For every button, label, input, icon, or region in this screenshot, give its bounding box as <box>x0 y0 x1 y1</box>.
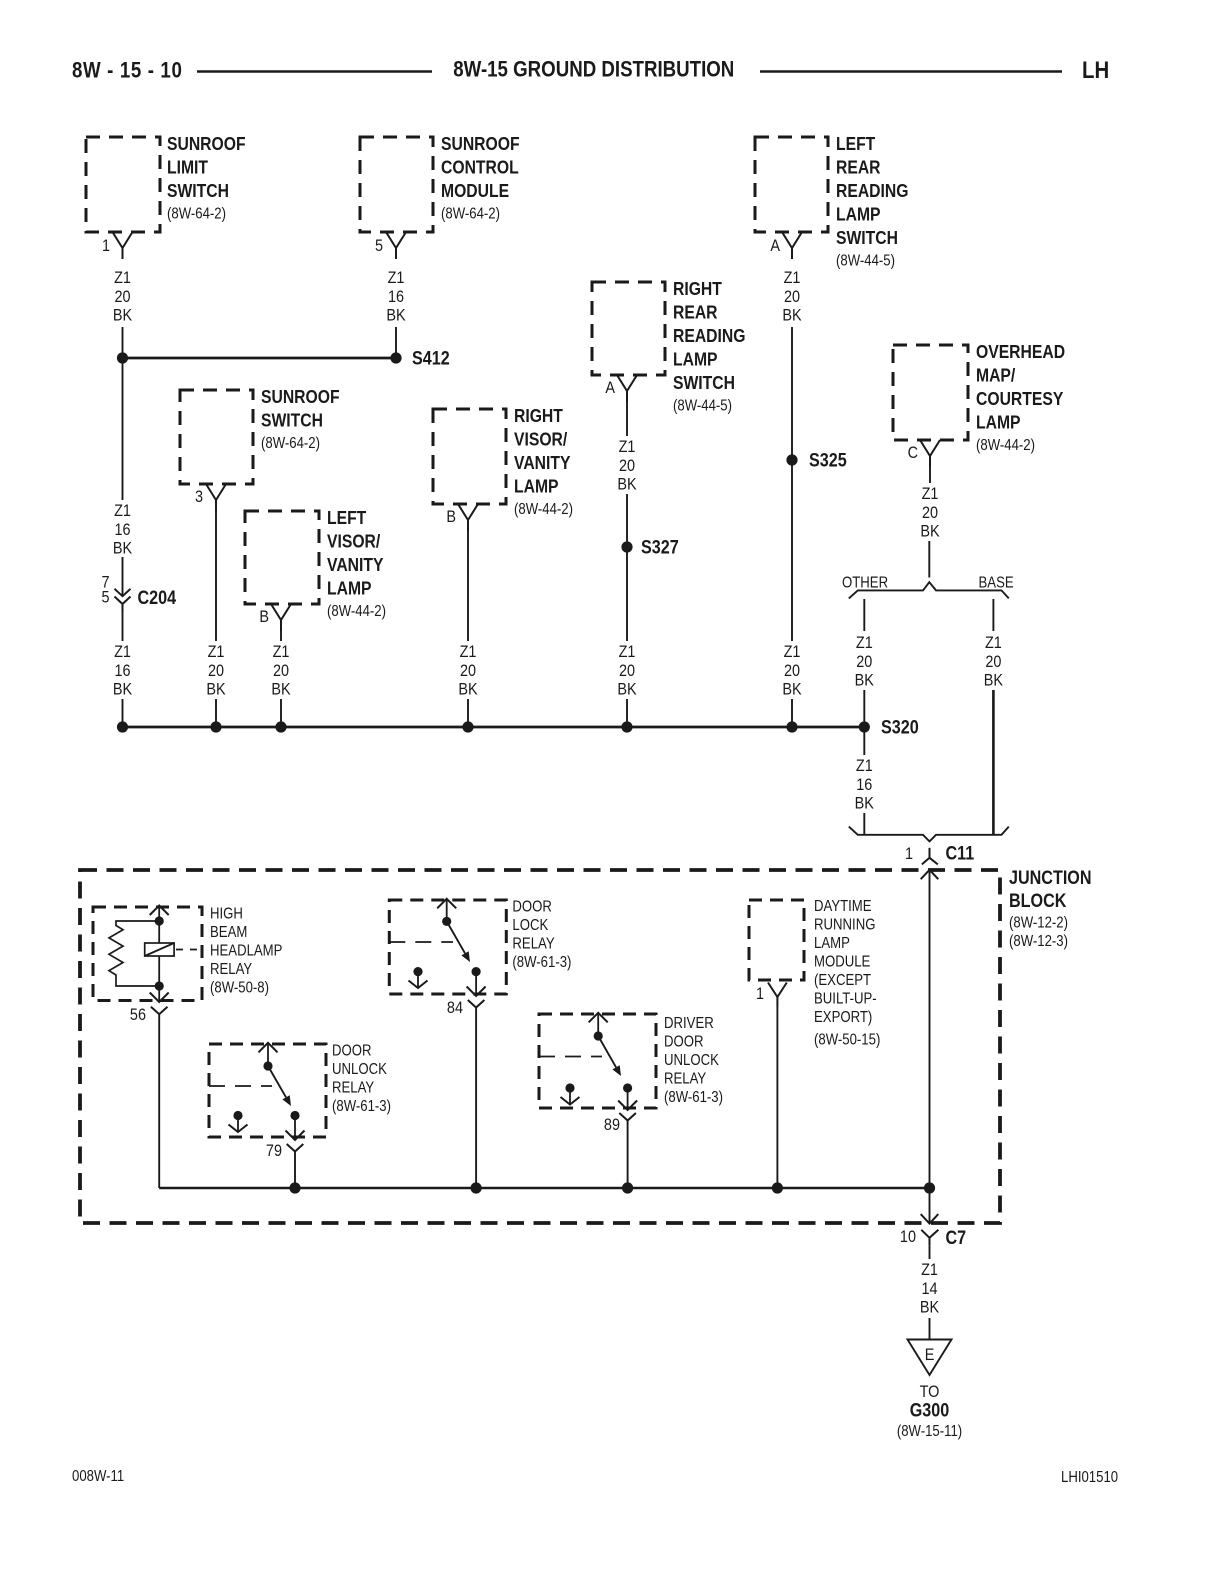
relay HIGH BEAM HEADLAMP RELAY box <box>93 907 202 1001</box>
svg-text:LAMP: LAMP <box>327 578 372 600</box>
label DOOR LOCK RELAY (8W-61-3) <box>512 898 571 971</box>
relay coil element <box>145 921 174 986</box>
svg-text:C11: C11 <box>946 842 975 864</box>
svg-text:EXPORT): EXPORT) <box>814 1009 872 1026</box>
relay NC contact arrow <box>229 1116 248 1133</box>
svg-text:(8W-64-2): (8W-64-2) <box>167 206 226 223</box>
svg-text:DAYTIME: DAYTIME <box>814 898 872 915</box>
junction dot at S412 left <box>117 352 128 363</box>
footer sheet number 008W-11 <box>72 1468 124 1485</box>
relay switch arm <box>598 1036 621 1076</box>
label RIGHT REAR READING LAMP SWITCH (8W-44-5) <box>673 278 745 415</box>
label DRIVER DOOR UNLOCK RELAY (8W-61-3) <box>664 1015 723 1106</box>
wire pin 56 to junction block bus <box>158 1015 160 1188</box>
svg-text:VISOR/: VISOR/ <box>327 531 380 553</box>
svg-text:BEAM: BEAM <box>210 924 247 941</box>
relay DOOR LOCK RELAY box <box>389 900 506 994</box>
label BASE variant <box>979 575 1014 592</box>
svg-text:BK: BK <box>206 680 226 698</box>
svg-text:20: 20 <box>114 288 130 306</box>
relay DOOR UNLOCK RELAY box <box>209 1044 326 1137</box>
svg-text:VISOR/: VISOR/ <box>514 429 567 451</box>
wire internal bus to C7 <box>929 1188 931 1224</box>
wire C204 down <box>122 612 124 641</box>
splice S325 junction dot <box>786 454 797 465</box>
svg-text:Z1: Z1 <box>114 269 131 287</box>
svg-text:Z1: Z1 <box>114 502 131 520</box>
svg-text:SWITCH: SWITCH <box>836 227 898 249</box>
svg-text:BK: BK <box>386 306 406 324</box>
footer drawing id LHI01510 <box>1061 1469 1118 1486</box>
svg-text:Z1: Z1 <box>784 269 801 287</box>
svg-text:Z1: Z1 <box>856 634 873 652</box>
svg-text:S327: S327 <box>641 536 679 558</box>
svg-text:Z1: Z1 <box>619 643 636 661</box>
svg-text:OVERHEAD: OVERHEAD <box>976 341 1065 363</box>
svg-text:S320: S320 <box>881 716 919 738</box>
svg-text:10: 10 <box>900 1228 916 1246</box>
wire right rear reading switch down <box>626 402 628 436</box>
svg-text:20: 20 <box>273 662 289 680</box>
pin 1 of C11 <box>905 845 913 863</box>
wire Z1 20 BK label (right rear reading switch) <box>617 438 637 494</box>
junction dot on internal bus x=777.4 <box>772 1182 783 1193</box>
relay NC contact dot <box>413 967 422 976</box>
pin 1 of daytime running lamp module <box>756 983 787 1008</box>
svg-text:REAR: REAR <box>836 157 881 179</box>
wire overhead lamp to variant brace <box>928 541 930 578</box>
wire Z1 16 BK label (C204 to ground bus) <box>113 643 133 699</box>
svg-text:Z1: Z1 <box>114 643 131 661</box>
svg-text:A: A <box>605 379 615 397</box>
relay internal dashed divider <box>539 1056 602 1058</box>
svg-text:LAMP: LAMP <box>976 412 1021 434</box>
connector C204 symbol <box>115 589 131 612</box>
label (8W-15-11) <box>897 1423 962 1440</box>
svg-text:56: 56 <box>130 1006 146 1024</box>
junction dot on ground bus x=281 <box>275 721 286 732</box>
svg-text:(8W-15-11): (8W-15-11) <box>897 1423 962 1440</box>
svg-text:SUNROOF: SUNROOF <box>441 133 520 155</box>
svg-text:8W-15 GROUND DISTRIBUTION: 8W-15 GROUND DISTRIBUTION <box>453 58 734 82</box>
component SUNROOF SWITCH box <box>180 390 253 484</box>
svg-text:(8W-61-3): (8W-61-3) <box>512 954 571 971</box>
svg-text:(8W-44-2): (8W-44-2) <box>327 603 386 620</box>
relay common dot <box>442 917 451 926</box>
wire Z1 20 BK label (S325 to ground bus) <box>782 643 802 699</box>
svg-text:BASE: BASE <box>979 575 1014 592</box>
label C7 <box>946 1227 967 1249</box>
wire to ground symbol <box>929 1318 931 1340</box>
svg-text:(8W-12-3): (8W-12-3) <box>1009 933 1068 950</box>
relay coil dashed link to case <box>176 949 200 951</box>
component RIGHT VISOR/VANITY LAMP box <box>433 409 506 504</box>
svg-text:BK: BK <box>920 522 940 540</box>
svg-text:(8W-44-2): (8W-44-2) <box>976 437 1035 454</box>
pin 7 of C204 <box>101 573 109 591</box>
svg-text:BK: BK <box>271 680 291 698</box>
wire Z1 20 BK label (right visor lamp) <box>458 643 478 699</box>
wire sunroof control module to S412 <box>395 327 397 353</box>
svg-text:LAMP: LAMP <box>673 349 718 371</box>
label DAYTIME RUNNING LAMP MODULE (EXCEPT BUILT-UP-EXPORT) (8W-50-15) <box>814 898 880 1049</box>
svg-text:LIMIT: LIMIT <box>167 157 208 179</box>
wire to ground bus (S327) <box>626 699 628 727</box>
junction dot on internal bus x=627.6 <box>622 1182 633 1193</box>
svg-text:BK: BK <box>984 671 1004 689</box>
svg-text:1: 1 <box>756 985 764 1003</box>
wire pin 79 to junction block bus <box>294 1152 296 1189</box>
svg-text:RELAY: RELAY <box>332 1079 375 1096</box>
label SUNROOF LIMIT SWITCH (8W-64-2) <box>167 133 246 223</box>
svg-text:VANITY: VANITY <box>327 554 384 576</box>
pin 84 of door lock relay <box>447 999 484 1017</box>
label S325 <box>809 449 847 471</box>
svg-text:20: 20 <box>784 662 800 680</box>
relay junction dot top <box>155 916 164 925</box>
wire OTHER branch upper <box>863 599 865 631</box>
relay internal dashed divider <box>389 941 453 943</box>
header rule left <box>197 70 432 73</box>
wire into connector C204 <box>122 557 124 596</box>
svg-text:MODULE: MODULE <box>441 180 509 202</box>
svg-text:20: 20 <box>922 504 938 522</box>
svg-text:(8W-64-2): (8W-64-2) <box>441 206 500 223</box>
variant split brace (top) <box>849 582 1009 598</box>
wire S327 down <box>626 552 628 641</box>
wire to ground bus (right visor lamp) <box>467 699 469 727</box>
svg-text:(EXCEPT: (EXCEPT <box>814 972 871 989</box>
svg-text:LEFT: LEFT <box>836 133 876 155</box>
relay feed arrow (top) <box>589 1013 608 1036</box>
wire Z1 20 BK label (overhead lamp) <box>920 485 940 541</box>
wire C11 down through junction block <box>929 870 931 1188</box>
svg-text:READING: READING <box>836 180 908 202</box>
svg-text:A: A <box>770 237 780 255</box>
svg-text:Z1: Z1 <box>921 1261 938 1279</box>
svg-text:RELAY: RELAY <box>210 961 253 978</box>
wire Z1 16 BK label (S320 to C11) <box>855 757 875 813</box>
junction dot on ground bus x=216 <box>210 721 221 732</box>
pin 5 of C204 <box>101 588 109 606</box>
wire to ground bus (left visor lamp) <box>280 699 282 727</box>
relay feed arrow (top) <box>150 906 169 922</box>
ground bus wire S320 <box>123 726 865 729</box>
relay NO contact dot <box>472 967 481 976</box>
label SUNROOF CONTROL MODULE (8W-64-2) <box>441 133 520 223</box>
svg-text:E: E <box>925 1346 935 1364</box>
svg-text:3: 3 <box>195 488 203 506</box>
svg-text:BK: BK <box>113 539 133 557</box>
svg-text:SWITCH: SWITCH <box>261 410 323 432</box>
svg-text:BK: BK <box>855 671 875 689</box>
svg-text:B: B <box>446 508 456 526</box>
svg-text:20: 20 <box>856 653 872 671</box>
svg-text:G300: G300 <box>910 1399 950 1421</box>
svg-text:(8W-50-15): (8W-50-15) <box>814 1031 880 1048</box>
svg-text:16: 16 <box>114 662 130 680</box>
splice S327 junction dot <box>621 541 632 552</box>
svg-text:HEADLAMP: HEADLAMP <box>210 942 282 959</box>
svg-text:(8W-64-2): (8W-64-2) <box>261 435 320 452</box>
component OVERHEAD MAP/COURTESY LAMP box <box>893 345 968 440</box>
relay feed arrow (top) <box>259 1043 278 1066</box>
label OVERHEAD MAP/COURTESY LAMP (8W-44-2) <box>976 341 1065 454</box>
svg-text:DOOR: DOOR <box>664 1033 703 1050</box>
component SUNROOF CONTROL MODULE box <box>360 137 433 232</box>
wire to ground bus (S325) <box>791 699 793 727</box>
svg-text:20: 20 <box>619 457 635 475</box>
label JUNCTION BLOCK (8W-12-2) (8W-12-3) <box>1009 867 1092 951</box>
wire Z1 20 BK label (sunroof switch) <box>206 643 226 699</box>
svg-text:Z1: Z1 <box>619 438 636 456</box>
wire sunroof switch down <box>215 511 217 641</box>
svg-text:OTHER: OTHER <box>842 575 888 592</box>
header page number 8W - 15 - 10 <box>72 59 182 83</box>
splice S412 bus wire <box>123 357 397 360</box>
svg-text:14: 14 <box>921 1280 937 1298</box>
svg-text:Z1: Z1 <box>784 643 801 661</box>
wire Z1 14 BK label (C7 to ground) <box>920 1261 940 1317</box>
label LEFT REAR READING LAMP SWITCH (8W-44-5) <box>836 133 908 270</box>
svg-text:RELAY: RELAY <box>512 935 555 952</box>
junction dot on ground bus x=122.5 <box>117 721 128 732</box>
svg-text:Z1: Z1 <box>460 643 477 661</box>
ground symbol triangle E <box>908 1340 952 1376</box>
svg-text:(8W-61-3): (8W-61-3) <box>664 1089 723 1106</box>
svg-text:VANITY: VANITY <box>514 452 571 474</box>
svg-text:JUNCTION: JUNCTION <box>1009 867 1092 889</box>
header LH <box>1082 56 1109 83</box>
svg-text:DOOR: DOOR <box>332 1042 371 1059</box>
connector C11 female half <box>922 848 938 865</box>
wire Z1 20 BK label (sunroof limit switch) <box>113 269 133 325</box>
svg-text:(8W-50-8): (8W-50-8) <box>210 979 269 996</box>
svg-text:Z1: Z1 <box>985 634 1002 652</box>
svg-text:(8W-44-5): (8W-44-5) <box>836 253 895 270</box>
svg-text:BUILT-UP-: BUILT-UP- <box>814 990 877 1007</box>
svg-text:1: 1 <box>905 845 913 863</box>
svg-text:Z1: Z1 <box>922 485 939 503</box>
svg-text:REAR: REAR <box>673 302 718 324</box>
wire Z1 20 BK label (OTHER branch) <box>855 634 875 690</box>
svg-text:84: 84 <box>447 999 463 1017</box>
pin 3 of sunroof switch <box>195 484 226 511</box>
svg-text:79: 79 <box>266 1142 282 1160</box>
svg-text:COURTESY: COURTESY <box>976 388 1064 410</box>
svg-text:LOCK: LOCK <box>512 917 548 934</box>
component DAYTIME RUNNING LAMP MODULE box <box>749 900 804 980</box>
relay common dot <box>594 1031 603 1040</box>
svg-text:SUNROOF: SUNROOF <box>261 386 340 408</box>
wire S325 down <box>791 465 793 641</box>
svg-text:Z1: Z1 <box>208 643 225 661</box>
svg-text:S325: S325 <box>809 449 847 471</box>
wire OTHER branch into S320 <box>863 690 865 722</box>
junction block internal ground bus <box>159 1187 929 1190</box>
wire S320 down <box>863 732 865 755</box>
relay output arrow (bottom) <box>467 972 486 996</box>
svg-text:SWITCH: SWITCH <box>673 372 735 394</box>
wire BASE branch down to connector brace <box>992 690 995 835</box>
svg-text:BK: BK <box>782 680 802 698</box>
svg-text:BK: BK <box>113 680 133 698</box>
component LEFT REAR READING LAMP SWITCH box <box>755 137 828 232</box>
pin 56 of high beam headlamp relay <box>130 1006 168 1024</box>
pin 1 of sunroof limit switch <box>102 232 133 259</box>
junction dot internal bus to C7 <box>924 1182 935 1193</box>
svg-text:1: 1 <box>102 237 110 255</box>
svg-text:MAP/: MAP/ <box>976 365 1015 387</box>
JUNCTION BLOCK dashed border <box>80 870 1000 1223</box>
wire Z1 16 BK label (sunroof control module) <box>386 269 406 325</box>
svg-text:Z1: Z1 <box>856 757 873 775</box>
wire into splice S327 <box>626 494 628 542</box>
relay DRIVER DOOR UNLOCK RELAY box <box>539 1014 656 1108</box>
svg-text:BK: BK <box>458 680 478 698</box>
svg-text:BK: BK <box>782 306 802 324</box>
header rule right <box>760 70 1062 73</box>
relay junction dot bottom <box>155 981 164 990</box>
svg-text:Z1: Z1 <box>388 269 405 287</box>
wire Z1 20 BK label (S327 to ground bus) <box>617 643 637 699</box>
svg-text:20: 20 <box>208 662 224 680</box>
svg-text:C204: C204 <box>138 587 177 609</box>
wire sunroof limit switch to S412 <box>122 327 124 353</box>
svg-text:8W - 15 - 10: 8W - 15 - 10 <box>72 59 182 83</box>
label SUNROOF SWITCH (8W-64-2) <box>261 386 340 452</box>
svg-text:LAMP: LAMP <box>836 204 881 226</box>
pin 79 of door unlock relay <box>266 1142 303 1160</box>
label TO <box>920 1383 940 1401</box>
connector C7 female half <box>921 1230 938 1246</box>
svg-text:(8W-44-2): (8W-44-2) <box>514 501 573 518</box>
svg-text:BK: BK <box>920 1298 940 1316</box>
splice S320 junction dot <box>859 721 870 732</box>
pin 5 of sunroof control module <box>375 232 406 259</box>
label C204 <box>138 587 177 609</box>
relay NC contact arrow <box>561 1088 580 1105</box>
svg-text:16: 16 <box>856 776 872 794</box>
pin B of left visor vanity lamp <box>259 604 291 631</box>
svg-text:008W-11: 008W-11 <box>72 1468 124 1485</box>
junction dot at S412 right <box>390 352 401 363</box>
junction dot on ground bus x=627 <box>621 721 632 732</box>
svg-text:16: 16 <box>114 521 130 539</box>
svg-text:RUNNING: RUNNING <box>814 916 875 933</box>
component RIGHT REAR READING LAMP SWITCH box <box>592 282 665 375</box>
svg-text:RIGHT: RIGHT <box>673 278 722 300</box>
junction dot on internal bus x=476.1 <box>471 1182 482 1193</box>
relay NO contact dot <box>290 1111 299 1120</box>
wire pin 89 to junction block bus <box>627 1121 629 1189</box>
connector C11 male arrow into junction block <box>921 870 939 879</box>
label S320 <box>881 716 919 738</box>
label HIGH BEAM HEADLAMP RELAY (8W-50-8) <box>210 905 282 996</box>
label S327 <box>641 536 679 558</box>
label LEFT VISOR/VANITY LAMP (8W-44-2) <box>327 507 386 620</box>
svg-text:CONTROL: CONTROL <box>441 157 519 179</box>
pin 89 of driver door unlock relay <box>604 1113 636 1134</box>
label S412 <box>412 347 450 369</box>
svg-text:LEFT: LEFT <box>327 507 367 529</box>
svg-text:LAMP: LAMP <box>514 476 559 498</box>
wire S320 branch to connector brace <box>863 813 865 835</box>
svg-text:20: 20 <box>619 662 635 680</box>
pin B of right visor vanity lamp <box>446 504 478 531</box>
junction dot on ground bus x=468 <box>462 721 473 732</box>
svg-text:C: C <box>908 444 918 462</box>
wire right visor lamp down <box>467 531 469 641</box>
connector C7 male arrow out of junction block <box>921 1214 939 1223</box>
wire overhead lamp down <box>929 467 931 483</box>
svg-text:LHI01510: LHI01510 <box>1061 1469 1118 1486</box>
svg-text:20: 20 <box>784 288 800 306</box>
pin A of right rear reading lamp switch <box>605 375 637 402</box>
svg-text:READING: READING <box>673 325 745 347</box>
svg-text:BK: BK <box>617 475 637 493</box>
component LEFT VISOR/VANITY LAMP box <box>245 511 319 604</box>
svg-text:SWITCH: SWITCH <box>167 180 229 202</box>
svg-text:20: 20 <box>460 662 476 680</box>
wire Z1 20 BK label (left rear reading switch) <box>782 269 802 325</box>
svg-text:BLOCK: BLOCK <box>1009 890 1067 912</box>
wire C7 down <box>929 1246 931 1259</box>
wire left visor lamp down <box>280 631 282 641</box>
svg-text:C7: C7 <box>946 1227 967 1249</box>
wire to ground bus (left) <box>122 699 124 727</box>
svg-text:(8W-12-2): (8W-12-2) <box>1009 915 1068 932</box>
wire into splice S325 <box>791 327 793 455</box>
header title 8W-15 GROUND DISTRIBUTION <box>453 58 734 82</box>
wire BASE branch upper <box>992 599 994 631</box>
relay internal dashed divider <box>209 1085 272 1087</box>
svg-text:DOOR: DOOR <box>512 898 551 915</box>
wire Z1 20 BK label (left visor lamp) <box>271 643 291 699</box>
wire S412 down to Z1 16 BK label <box>122 363 124 500</box>
svg-text:B: B <box>259 608 269 626</box>
relay common dot <box>263 1061 272 1070</box>
pin 10 of C7 <box>900 1228 916 1246</box>
svg-text:5: 5 <box>375 237 383 255</box>
svg-text:(8W-61-3): (8W-61-3) <box>332 1098 391 1115</box>
label C11 <box>946 842 975 864</box>
wire pin 84 to junction block bus <box>475 1008 477 1189</box>
relay output arrow (bottom) <box>618 1088 637 1110</box>
junction dot on ground bus x=792 <box>786 721 797 732</box>
relay output arrow (bottom) <box>286 1116 305 1141</box>
pin C of overhead map courtesy lamp <box>908 440 940 467</box>
svg-text:16: 16 <box>388 288 404 306</box>
svg-text:UNLOCK: UNLOCK <box>332 1061 387 1078</box>
svg-text:20: 20 <box>985 653 1001 671</box>
pin A of left rear reading lamp switch <box>770 232 802 259</box>
relay resistor element <box>109 921 159 986</box>
svg-text:LAMP: LAMP <box>814 935 850 952</box>
relay output arrow (bottom) <box>150 986 169 1002</box>
variant merge brace (bottom) <box>849 827 1009 842</box>
ground G300 label <box>910 1399 950 1421</box>
svg-text:BK: BK <box>855 794 875 812</box>
svg-text:HIGH: HIGH <box>210 905 243 922</box>
svg-text:BK: BK <box>617 680 637 698</box>
svg-text:RELAY: RELAY <box>664 1070 707 1087</box>
wire Z1 16 BK label above C204 <box>113 502 133 558</box>
relay NC contact arrow <box>409 972 428 988</box>
junction dot on internal bus x=295 <box>289 1182 300 1193</box>
label RIGHT VISOR/VANITY LAMP (8W-44-2) <box>514 405 573 518</box>
wire pin 1 to junction block bus <box>776 1007 778 1188</box>
